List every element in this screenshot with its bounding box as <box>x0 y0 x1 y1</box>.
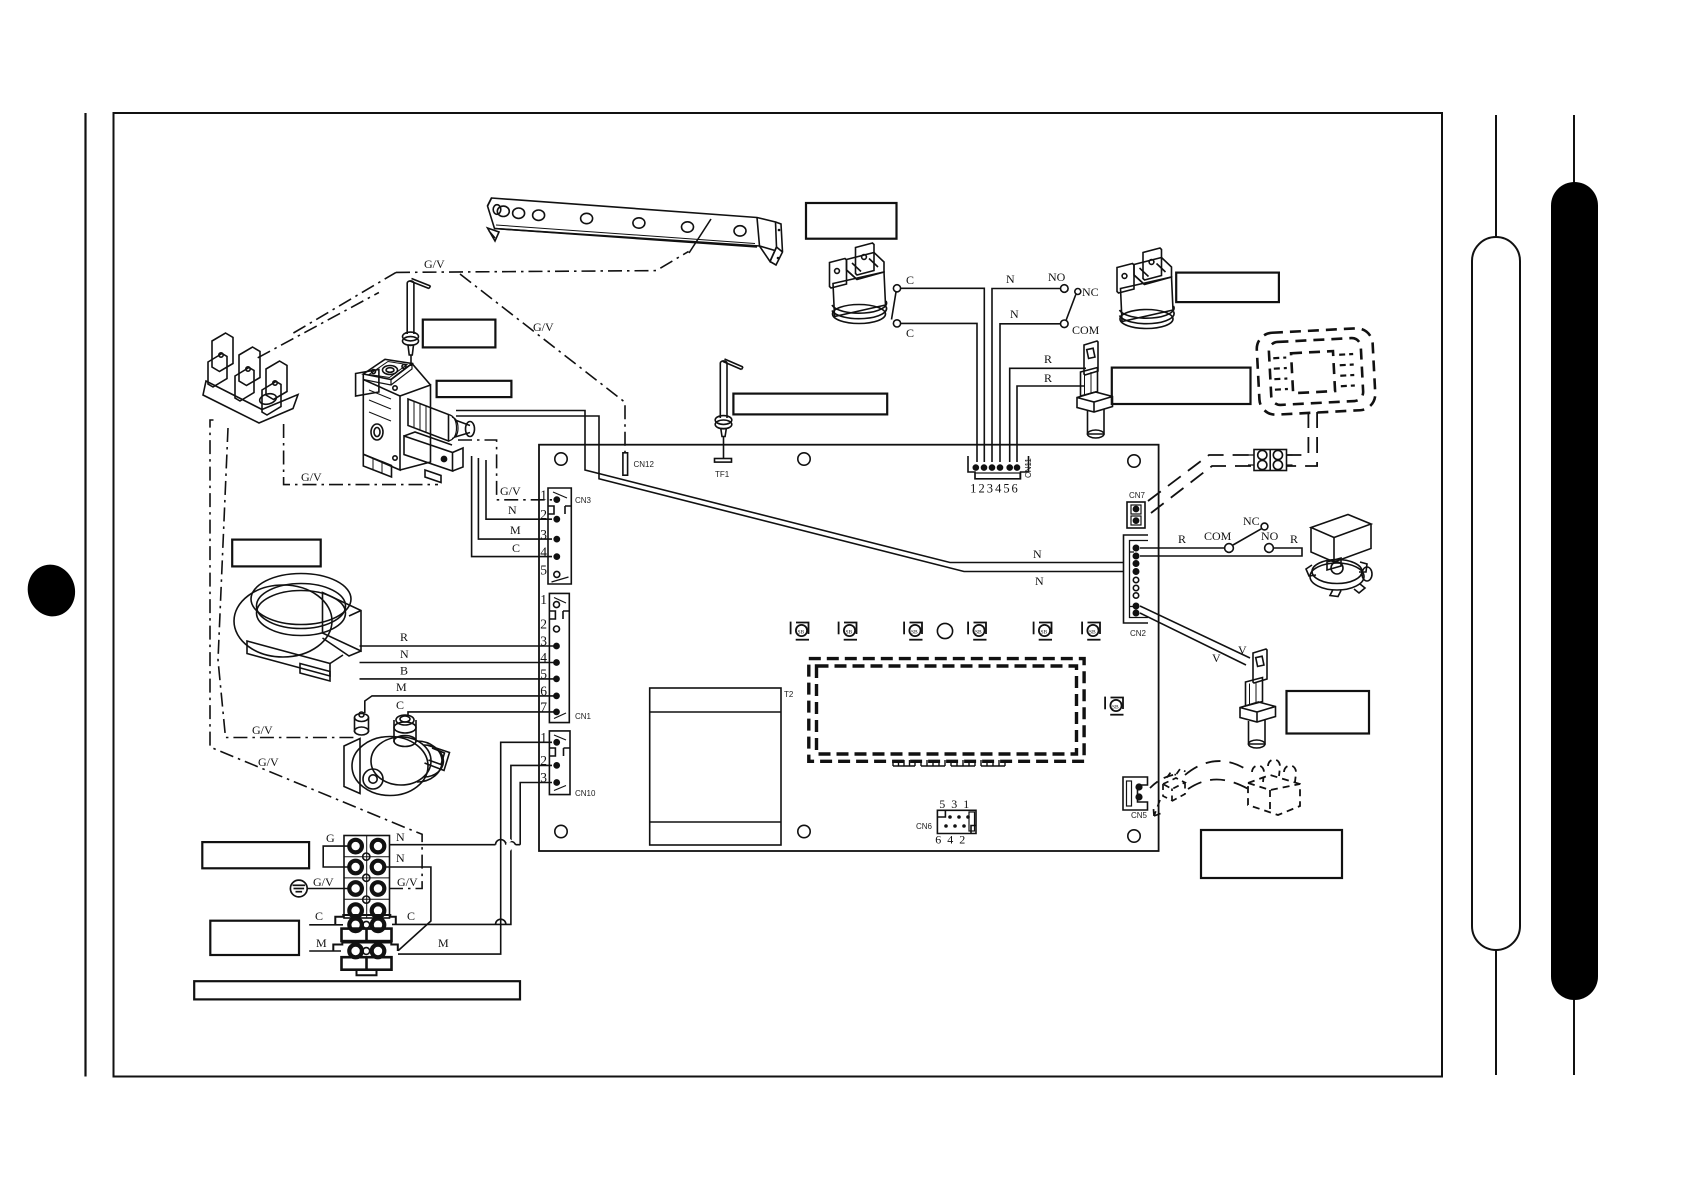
svg-text:G/V: G/V <box>424 257 445 271</box>
box bottom long label <box>194 981 520 999</box>
connector CN12 <box>623 453 655 475</box>
svg-text:B: B <box>400 664 408 678</box>
svg-text:COM: COM <box>1072 323 1100 337</box>
svg-text:R: R <box>1290 532 1298 546</box>
svg-text:N: N <box>396 830 405 844</box>
G/V dash-dot network top: bracket to rail and CN12 <box>258 251 689 452</box>
svg-text:CN2: CN2 <box>1130 629 1147 638</box>
svg-text:2: 2 <box>978 482 984 496</box>
svg-text:C: C <box>512 541 520 555</box>
svg-text:R: R <box>1044 352 1052 366</box>
connector CN1 <box>540 592 591 723</box>
bottom connector block <box>404 436 453 471</box>
svg-text:G/V: G/V <box>258 755 279 769</box>
box terminal label 2 <box>210 921 299 955</box>
svg-text:6: 6 <box>1011 482 1017 496</box>
ground wire to terminal <box>308 888 349 890</box>
svg-text:5: 5 <box>540 563 547 578</box>
external 4-pin connector <box>1248 450 1293 471</box>
svg-text:M: M <box>396 680 407 694</box>
wire bracket diagonal B <box>258 293 379 358</box>
bridge on C wire over pin1 vertical <box>496 919 506 924</box>
border frame <box>114 113 1443 1077</box>
mounting hole TL <box>555 453 567 465</box>
connector CN7 <box>1127 491 1146 528</box>
svg-text:4: 4 <box>995 482 1002 496</box>
limit thermostat <box>1117 248 1174 329</box>
connector CN5 <box>1123 777 1148 820</box>
right thin vertical line 2 <box>1573 115 1575 1075</box>
svg-text:TF1: TF1 <box>715 470 730 479</box>
wire g/v terminal row3 dashdot <box>210 420 422 889</box>
TF1 terminal <box>715 437 732 479</box>
V wires CN2 to flow sensor <box>1140 606 1250 658</box>
ignition plug dashed <box>1154 769 1186 816</box>
svg-text:NC: NC <box>1243 514 1260 528</box>
wire CN3 pin3 M to valve <box>478 458 552 539</box>
PCB outline <box>539 445 1159 851</box>
motorized valve <box>1306 515 1372 597</box>
svg-text:5: 5 <box>1003 482 1009 496</box>
flow sensor <box>1240 649 1276 748</box>
wire rail horizontal dashdot <box>396 251 689 272</box>
CN11 harness: N wire from COM <box>1000 324 1061 462</box>
svg-text:CN5: CN5 <box>1131 811 1148 820</box>
svg-text:G/V: G/V <box>313 875 334 889</box>
electrode bracket (3 tabs) <box>203 333 298 423</box>
svg-text:V: V <box>1212 651 1221 665</box>
wire fan R to CN1 pin3 <box>360 645 555 647</box>
svg-text:G/V: G/V <box>301 470 322 484</box>
svg-text:CN3: CN3 <box>575 496 592 505</box>
svg-text:G/V: G/V <box>397 875 418 889</box>
svg-text:NO: NO <box>1048 270 1066 284</box>
wire terminal C left stub <box>309 924 343 926</box>
svg-text:N: N <box>1033 547 1042 561</box>
mounting hole BM <box>798 825 810 837</box>
switch blade COM-NC <box>1066 295 1076 321</box>
relay area right of CN2: R wire to COM <box>1140 547 1225 549</box>
G/V dash-dot: right terminal to overhead network <box>210 420 422 889</box>
mounting hole TM <box>798 453 810 465</box>
wire terminal M left stub <box>309 950 341 952</box>
wire CN3 pin4 C to valve <box>472 456 552 557</box>
rail tick line <box>689 219 711 253</box>
dashed wires CN5 to ignition connector <box>1150 761 1252 791</box>
room thermostat dashed <box>1256 328 1376 416</box>
svg-text:C: C <box>407 909 415 923</box>
svg-text:M: M <box>510 523 521 537</box>
M connector shell <box>333 943 398 952</box>
wire terminal G bridge rows1-2 <box>323 846 349 867</box>
ground symbol <box>290 880 307 897</box>
box fumes thermostat label <box>806 203 897 239</box>
box fan label <box>232 540 321 567</box>
svg-text:N: N <box>1010 307 1019 321</box>
svg-text:NC: NC <box>1082 285 1099 299</box>
svg-text:M: M <box>438 936 449 950</box>
C connector shell <box>335 915 396 925</box>
svg-text:COM: COM <box>1204 529 1232 543</box>
svg-text:C: C <box>906 273 914 287</box>
mounting hole BL <box>555 825 567 837</box>
svg-text:G: G <box>326 831 335 845</box>
box TF1 electrode label <box>733 394 887 415</box>
CN11 harness: C bottom wire <box>901 323 978 462</box>
svg-text:R: R <box>400 630 408 644</box>
dashed link CN7 to external connector <box>1148 412 1317 513</box>
svg-text:C: C <box>315 909 323 923</box>
black stadium tab <box>1551 182 1598 1000</box>
DHW sensor <box>1077 341 1113 438</box>
COM contact circle <box>1061 320 1069 328</box>
svg-text:N: N <box>508 503 517 517</box>
transformer T2 <box>650 688 794 845</box>
svg-text:CN1: CN1 <box>575 712 592 721</box>
connector CN3 <box>540 488 591 585</box>
wire G/V dash-dot valve to CN3 pin1 <box>458 440 552 500</box>
connector CN10 <box>540 730 596 798</box>
svg-text:1: 1 <box>970 482 976 496</box>
svg-text:T2: T2 <box>784 690 794 699</box>
wire G/V diagonal to CN12 <box>460 274 625 453</box>
box gas valve label <box>437 381 512 397</box>
CN11 harness: N wire from NO <box>992 289 1061 463</box>
wire terminal N row1 with bridges <box>389 839 520 844</box>
svg-text:G/V: G/V <box>500 484 521 498</box>
svg-text:R: R <box>1178 532 1186 546</box>
svg-text:N: N <box>396 851 405 865</box>
display pin combs <box>893 760 1005 766</box>
svg-text:G/V: G/V <box>252 723 273 737</box>
svg-text:V: V <box>1238 643 1247 657</box>
gas valve <box>356 359 475 482</box>
svg-text:2: 2 <box>540 617 547 632</box>
svg-text:3: 3 <box>987 482 993 496</box>
flame electrode TF1 <box>715 359 743 437</box>
wire pump C to CN1 pin7 <box>408 712 554 715</box>
white stadium outline <box>1472 237 1520 950</box>
right thin vertical line 1 <box>1495 115 1497 1075</box>
wire terminal N row2 <box>385 867 431 951</box>
svg-text:6 4 2: 6 4 2 <box>935 833 967 847</box>
wire CN10 pin1 to terminal M <box>398 742 552 954</box>
svg-text:1: 1 <box>540 592 547 607</box>
svg-text:C: C <box>396 698 404 712</box>
mounting hole BR <box>1128 830 1140 842</box>
wire pump M to CN1 pin6 <box>365 696 554 713</box>
SB jumper icons row <box>791 622 1124 715</box>
svg-text:CN7: CN7 <box>1129 491 1146 500</box>
pump <box>344 712 450 796</box>
box ignition label <box>1201 830 1342 878</box>
gap mask for C bridge <box>507 840 510 850</box>
NC contact circle <box>1075 289 1081 295</box>
wire CN3 pin2 N to valve <box>486 460 552 519</box>
terminal block <box>333 836 398 976</box>
svg-text:C: C <box>906 326 914 340</box>
connector CN6 <box>916 797 976 847</box>
coil <box>408 399 449 441</box>
box limit thermostat label <box>1176 273 1279 303</box>
ignition transformer socket dashed <box>1248 759 1300 815</box>
fumes stat contact circle lower <box>893 320 900 327</box>
svg-text:CN12: CN12 <box>634 460 655 469</box>
left margin vertical line <box>84 113 86 1077</box>
left black ellipse marker <box>22 559 82 622</box>
wire g/v to pump dashdot <box>218 428 354 738</box>
svg-text:SB: SB <box>798 630 805 636</box>
fan <box>234 574 361 682</box>
connector CN11 <box>968 456 1033 496</box>
wire bracket diagonal A <box>293 272 396 333</box>
wire G/V dash-dot bracket to valve bottom <box>284 424 438 485</box>
CN11 harness: R wire upper <box>1010 368 1086 462</box>
burner rail <box>488 198 783 265</box>
svg-text:NO: NO <box>1261 529 1279 543</box>
svg-text:G/V: G/V <box>533 320 554 334</box>
relay NO wire right and return <box>1140 548 1302 556</box>
relay COM circle <box>1225 544 1234 553</box>
svg-text:N: N <box>1006 272 1015 286</box>
wire CN10 pin2 to terminal C <box>392 765 552 924</box>
box flow sensor label <box>1287 691 1370 734</box>
relay NC circle <box>1261 523 1268 530</box>
connector CN2 <box>1124 535 1149 638</box>
svg-text:CN10: CN10 <box>575 789 596 798</box>
svg-text:CN11: CN11 <box>1024 458 1033 478</box>
NO contact circle <box>1061 285 1069 293</box>
svg-text:5 3 1: 5 3 1 <box>939 797 971 811</box>
relay NO circle <box>1265 544 1274 553</box>
svg-text:N: N <box>400 647 409 661</box>
wire fan N to CN1 pin4 <box>360 662 555 664</box>
wire valve N to CN2 (lower) <box>456 416 1124 572</box>
svg-text:CN6: CN6 <box>916 822 933 831</box>
svg-text:R: R <box>1044 371 1052 385</box>
svg-text:M: M <box>316 936 327 950</box>
box terminal label 1 <box>202 842 309 868</box>
ignition electrode <box>403 279 431 367</box>
box DHW sensor label <box>1112 368 1251 404</box>
fumes stat contact circle upper <box>893 285 900 292</box>
mounting hole TR <box>1128 455 1140 467</box>
svg-text:N: N <box>1035 574 1044 588</box>
wire CN10 pin3 to terminal N <box>520 783 552 845</box>
box electrode label <box>423 320 496 348</box>
wire fan B to CN1 pin5 <box>360 678 555 680</box>
dashed display module <box>809 659 1084 762</box>
small hole in SB row <box>937 623 952 638</box>
fumes thermostat <box>830 243 887 324</box>
fumes stat contact blade <box>892 292 897 320</box>
wire valve N to CN2 (upper) <box>456 411 1124 563</box>
CN11 harness: C top wire <box>901 288 985 462</box>
CN11 harness: R wire lower <box>1017 386 1085 462</box>
relay blade COM-NC <box>1233 529 1261 545</box>
